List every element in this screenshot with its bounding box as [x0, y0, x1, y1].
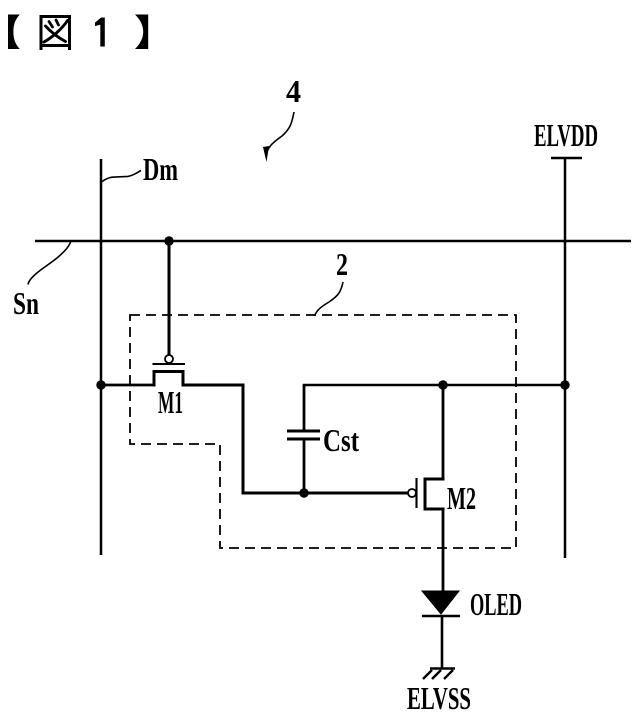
wire Dm to M1 source: [101, 384, 154, 387]
data line Dm (vertical wire): [100, 159, 103, 555]
scan line Sn (horizontal wire): [35, 240, 631, 242]
wire Cst top to ELVDD: [304, 385, 565, 387]
label M1: [158, 384, 183, 420]
label Dm: [143, 151, 178, 187]
node junction at M2 source tap: [438, 380, 447, 389]
leader line for Dm: [102, 171, 141, 182]
figure title kanji 図 box: [40, 17, 72, 51]
leader line for 2: [315, 282, 344, 316]
transistor M2 gate circle: [408, 489, 416, 497]
node junction on Dm at M1 source: [96, 380, 105, 389]
label 4: [286, 73, 301, 109]
power line ELVDD (vertical wire): [564, 158, 567, 558]
node junction on ELVDD line: [560, 380, 569, 389]
wire M1 gate vertical: [168, 241, 171, 355]
leader arrow for 4: [263, 112, 294, 162]
svg-text:ELVSS: ELVSS: [407, 680, 471, 713]
transistor M1 gate circle: [165, 355, 173, 363]
node junction at Cst bottom: [299, 488, 308, 497]
transistor M1 gate bar: [153, 363, 186, 365]
power rail ELVDD bar: [551, 157, 582, 160]
transistor M2 gate bar: [415, 478, 417, 508]
svg-text:OLED: OLED: [470, 586, 522, 622]
svg-text:2: 2: [336, 246, 348, 282]
wire OLED cathode to ground: [441, 616, 444, 668]
capacitor Cst top lead: [303, 385, 306, 430]
svg-text:Cst: Cst: [323, 422, 359, 458]
figure title digit 1: [95, 18, 105, 47]
label Cst: [323, 422, 359, 458]
wire M2 source vertical: [442, 385, 445, 479]
svg-text:Dm: Dm: [143, 151, 178, 187]
label Sn: [13, 285, 39, 321]
label OLED: [470, 586, 522, 622]
transistor M1 channel: [154, 372, 183, 387]
figure title bracket left 【: [8, 15, 20, 50]
node junction on Sn at M1 gate: [164, 236, 173, 245]
diode OLED anode triangle: [422, 591, 459, 614]
wire M2 drain to OLED: [442, 509, 445, 591]
dashed pixel-circuit boundary box 2: [130, 315, 516, 548]
wire M1 drain to gate node of M2: [183, 385, 408, 493]
ground symbol ELVSS: [423, 669, 455, 680]
label 2: [336, 246, 348, 282]
capacitor Cst plates: [287, 431, 320, 439]
diode OLED cathode bar: [422, 615, 460, 618]
label M2: [447, 480, 476, 516]
svg-text:ELVDD: ELVDD: [534, 117, 598, 153]
svg-text:M2: M2: [447, 480, 476, 516]
svg-text:Sn: Sn: [13, 285, 39, 321]
capacitor Cst bottom lead: [303, 440, 306, 493]
leader line for Sn: [28, 241, 71, 285]
figure title bracket right 】: [135, 15, 148, 50]
label ELVSS: [407, 680, 471, 713]
svg-text:4: 4: [286, 73, 301, 109]
transistor M2 channel: [425, 479, 445, 509]
label ELVDD: [534, 117, 598, 153]
svg-text:M1: M1: [158, 384, 183, 420]
